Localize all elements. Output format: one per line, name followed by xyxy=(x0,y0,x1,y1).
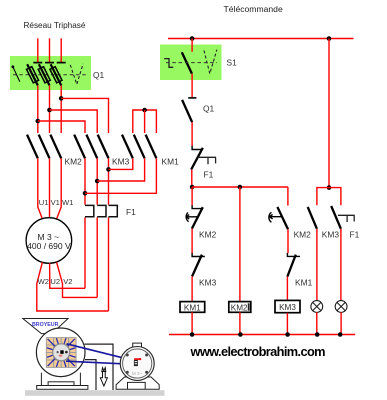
wire KM2 coil branch vertical xyxy=(239,187,241,302)
contact F1 NO thermal marker xyxy=(338,215,355,222)
crusher hub mouth xyxy=(59,355,63,357)
svg-text:KM1: KM1 xyxy=(162,157,180,167)
contact KM2 NO actuator arc xyxy=(269,212,272,222)
contact F1 NC blade xyxy=(191,148,203,170)
wire branch3 split horizontal xyxy=(317,188,341,206)
svg-text:Réseau Triphasé: Réseau Triphasé xyxy=(24,21,86,30)
node bottom rail lamp2 xyxy=(338,332,343,337)
contact KM2 NO blade branch2 xyxy=(277,207,288,229)
wire F1 element1 to U2 xyxy=(84,217,86,288)
node top rail / S1 xyxy=(190,36,195,41)
contactor KM2 pole 2 blade xyxy=(39,135,50,159)
breaker Q1 pole 2 fuse body xyxy=(38,67,50,83)
wire KM3 NC to KM1 coil xyxy=(191,276,193,301)
svg-text:400 / 690 V: 400 / 690 V xyxy=(27,241,71,251)
crusher stand legs xyxy=(41,373,80,386)
contactor KM1 pole 2 blade xyxy=(134,135,145,159)
node branch3 split xyxy=(327,185,332,190)
svg-text:W2: W2 xyxy=(38,277,49,286)
thermal relay F1 element 3 xyxy=(109,205,118,216)
crusher hub circle xyxy=(53,344,70,361)
crusher hub dot middle xyxy=(60,350,63,354)
svg-text:F1: F1 xyxy=(350,230,360,240)
wire F1 element2 to V2 xyxy=(96,217,98,297)
wire motor W2 out xyxy=(37,262,109,311)
contact KM3 NO blade branch3 xyxy=(308,207,317,229)
contact F1 NC hook xyxy=(192,146,202,150)
wire L1 to KM3 pole1 xyxy=(38,121,85,133)
wire phase L2 top xyxy=(49,38,51,62)
contactor KM1 pole 3 blade xyxy=(146,135,157,159)
svg-text:KM1: KM1 xyxy=(184,303,201,312)
crusher hub dot left xyxy=(57,351,59,353)
lamp H2 xyxy=(335,301,347,313)
wire branch2 corner down xyxy=(287,187,289,206)
wire KM1 pole1 to KM3 pole3 xyxy=(109,158,133,169)
wire KM3 pole3 down xyxy=(108,158,110,204)
contact F1 NC thermal marker xyxy=(198,157,217,164)
node KM3 pole2 / KM1 pole2 xyxy=(95,179,100,184)
breaker Q1 pole 2 blade xyxy=(39,64,50,85)
crusher hopper xyxy=(23,319,68,334)
wire KM2 coil to bottom rail xyxy=(239,312,241,334)
wire KM1 pole3 to KM3 pole1 xyxy=(85,158,156,193)
wire KM2 pole1 to motor U1 xyxy=(38,158,43,219)
node branch split xyxy=(190,185,195,190)
motor inner circle xyxy=(123,349,152,378)
svg-text:KM2: KM2 xyxy=(199,230,217,240)
node KM3 pole1 / KM1 pole3 xyxy=(83,191,88,196)
node L2 branch xyxy=(47,108,52,113)
motor bolt top-left xyxy=(126,354,129,357)
contact Q1 aux terminal bar xyxy=(188,97,196,99)
svg-text:Télécommande: Télécommande xyxy=(224,4,283,14)
coil KM1 box xyxy=(180,302,205,313)
breaker Q1 trip V symbol xyxy=(70,64,83,85)
svg-text:M 3~: M 3~ xyxy=(132,371,143,376)
contact KM2 timed hook xyxy=(192,205,203,209)
svg-text:KM2: KM2 xyxy=(231,303,248,312)
wire lamp2 to bottom rail xyxy=(340,312,342,334)
breaker Q1 pole 1 terminal bar xyxy=(33,62,42,64)
wire KM3 coil to bottom rail xyxy=(286,313,288,335)
motor shaft red mark xyxy=(134,358,139,360)
wire KM3 NO to lamp1 xyxy=(316,229,318,301)
wire KM2 pole2 to motor V1 xyxy=(49,158,51,218)
wire S1 to Q1 aux xyxy=(191,74,193,98)
svg-text:F1: F1 xyxy=(204,170,214,180)
wire KM2 NO to KM1 NC xyxy=(287,229,289,253)
motor bolt top-right xyxy=(145,354,148,357)
contactor KM1 pole 1 blade xyxy=(122,135,133,159)
wire KM2 timed to KM3 NC xyxy=(191,229,193,254)
switch S1 trip V symbol xyxy=(204,50,217,74)
wire Q1 aux to F1 xyxy=(191,122,193,146)
switch S1 blade xyxy=(182,52,192,73)
belt guard column xyxy=(85,344,114,390)
svg-text:V2: V2 xyxy=(63,277,72,286)
wire L2 below breaker xyxy=(49,85,51,133)
wire KM1 coil to bottom rail xyxy=(191,312,193,334)
motor lifting tab xyxy=(133,343,142,347)
node L3 branch xyxy=(59,96,64,101)
motor outer circle xyxy=(120,347,154,381)
contactor KM2 pole 1 blade xyxy=(27,135,38,159)
wire motor U2 out xyxy=(50,263,85,288)
wire L3 below breaker xyxy=(60,85,62,133)
svg-text:KM3: KM3 xyxy=(322,230,340,240)
wire phase L3 top xyxy=(60,38,62,62)
svg-text:BROYEUR: BROYEUR xyxy=(32,322,59,328)
breaker Q1 pole 1 blade xyxy=(27,64,38,85)
contact KM1 NC hook xyxy=(287,253,300,257)
contactor KM2 pole 3 blade xyxy=(50,135,61,159)
motor bolt bottom-left xyxy=(126,371,129,374)
crusher hammer blue rays xyxy=(47,338,76,367)
feed arrow down xyxy=(100,372,107,387)
svg-text:KM3: KM3 xyxy=(279,303,296,312)
feed arrow zigzag xyxy=(102,368,106,373)
wire KM1 top bus xyxy=(133,110,157,133)
svg-text:KM3: KM3 xyxy=(199,278,217,288)
wire KM1 pole2 drop xyxy=(144,110,146,133)
wire control top rail xyxy=(168,38,354,40)
wire KM3 pole1 down xyxy=(84,158,86,204)
wire control bottom rail xyxy=(169,334,355,336)
crusher ground bar xyxy=(25,390,165,396)
wire phase L1 top xyxy=(37,38,39,62)
svg-text:W1: W1 xyxy=(62,198,73,207)
wire node to KM2 timed contact xyxy=(191,187,193,205)
node bottom rail lamp1 xyxy=(315,332,320,337)
breaker Q1 pole 3 terminal bar xyxy=(57,62,66,64)
contact F1 NO blade branch3 xyxy=(331,206,341,229)
motor base xyxy=(116,377,159,389)
contactor KM3 pole 3 blade xyxy=(98,135,109,159)
drive belt line upper xyxy=(67,344,136,361)
motor bolt bottom-right xyxy=(145,371,148,374)
wire KM1 pole2 to KM3 pole2 xyxy=(97,158,144,181)
wire KM1 NC to KM3 coil xyxy=(286,277,288,301)
breaker Q1 pole 1 fuse body xyxy=(27,67,39,83)
svg-text:Q1: Q1 xyxy=(93,70,105,80)
wire branch rail horizontal xyxy=(192,186,288,188)
node L1 branch xyxy=(36,119,41,124)
node KM1 bus tap xyxy=(142,108,147,113)
wire L3 to KM3 pole3 xyxy=(61,98,108,133)
wire KM2 pole3 to motor W1 xyxy=(56,158,61,219)
node bottom rail KM1 xyxy=(190,332,195,337)
crusher stand platform xyxy=(48,382,74,386)
contact KM1 NC blade xyxy=(287,255,295,277)
contact KM2 timed delay arrow xyxy=(186,215,198,219)
coil KM3 box xyxy=(275,300,300,312)
crusher drum circle xyxy=(36,328,85,377)
node KM2 coil branch xyxy=(238,185,243,190)
breaker Q1 pole 2 terminal bar xyxy=(45,62,54,64)
wire L2 to KM3 pole2 xyxy=(50,110,98,133)
contact KM2 NO actuator arrow xyxy=(269,215,281,219)
crusher stand base bar xyxy=(37,386,88,390)
wire motor V2 out xyxy=(57,262,98,297)
contact KM2 timed delay arc xyxy=(186,213,188,222)
wire branch3 vertical xyxy=(328,39,330,188)
node bottom rail KM3 xyxy=(285,332,290,337)
switch S1 green box xyxy=(160,45,222,81)
wire F1 NO to lamp2 xyxy=(340,229,342,301)
breaker Q1 green box xyxy=(10,56,91,90)
breaker Q1 pole 3 fuse body xyxy=(50,67,62,83)
svg-text:F1: F1 xyxy=(126,207,136,217)
svg-text:U2: U2 xyxy=(50,277,60,286)
lamp H1 xyxy=(311,301,323,313)
crusher hub dot right xyxy=(65,351,68,354)
contactor KM3 pole 2 blade xyxy=(86,135,97,159)
wire S1 top xyxy=(191,39,193,52)
node KM3 pole3 / KM1 pole1 xyxy=(106,167,111,172)
coil KM2 clipped mark xyxy=(248,303,250,310)
contact KM3 NC blade xyxy=(192,255,202,277)
wire F1 element3 to W2 xyxy=(108,217,110,311)
svg-text:www.electrobrahim.com: www.electrobrahim.com xyxy=(190,344,326,359)
svg-text:KM2: KM2 xyxy=(65,157,83,167)
svg-text:U1: U1 xyxy=(39,198,49,207)
breaker Q1 mechanism dashed link xyxy=(13,74,86,76)
breaker Q1 handle xyxy=(12,65,15,68)
motor shaft block xyxy=(134,360,138,366)
node bottom rail KM2 xyxy=(238,332,243,337)
breaker Q1 pole 3 blade xyxy=(51,64,62,85)
svg-text:V1: V1 xyxy=(51,198,60,207)
contactor KM3 pole 1 blade xyxy=(74,135,85,159)
motor M circle xyxy=(26,218,72,264)
thermal relay F1 element 2 xyxy=(97,205,106,216)
wire KM3 pole2 down xyxy=(96,158,98,204)
coil KM2 box xyxy=(229,302,251,313)
svg-text:S1: S1 xyxy=(227,58,238,68)
wire L1 below breaker xyxy=(37,85,39,133)
switch S1 actuator step xyxy=(164,59,173,68)
wire F1 to node xyxy=(191,170,193,188)
contact KM2 timed blade xyxy=(192,207,203,228)
svg-text:KM2: KM2 xyxy=(294,230,312,240)
contact Q1 aux blade xyxy=(182,100,192,122)
svg-text:KM1: KM1 xyxy=(295,278,313,288)
wire lamp1 to bottom rail xyxy=(316,312,318,334)
thermal relay F1 element 1 xyxy=(85,205,94,216)
drive belt line lower xyxy=(66,361,136,364)
node top rail / branch 3 xyxy=(327,36,332,41)
contact KM3 NC hook xyxy=(192,253,205,257)
svg-text:Q1: Q1 xyxy=(203,104,215,114)
svg-text:KM3: KM3 xyxy=(112,157,130,167)
switch S1 mechanism dashed link xyxy=(166,62,217,64)
crusher hammer grid xyxy=(46,338,76,368)
